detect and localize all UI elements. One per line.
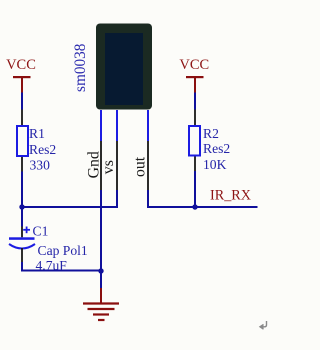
svg-text:vs: vs	[100, 160, 117, 174]
svg-text:Res2: Res2	[203, 141, 230, 156]
svg-text:330: 330	[30, 158, 51, 173]
svg-text:VCC: VCC	[6, 57, 36, 73]
svg-text:sm0038: sm0038	[72, 43, 89, 92]
svg-text:R1: R1	[29, 126, 45, 141]
svg-text:IR_RX: IR_RX	[210, 188, 251, 204]
svg-text:10K: 10K	[203, 157, 227, 172]
svg-text:C1: C1	[33, 224, 49, 239]
svg-text:Res2: Res2	[29, 142, 56, 157]
svg-text:Cap Pol1: Cap Pol1	[38, 243, 88, 258]
svg-text:R2: R2	[203, 126, 219, 141]
svg-text:VCC: VCC	[179, 57, 209, 73]
svg-text:out: out	[132, 156, 149, 177]
svg-text:4.7uF: 4.7uF	[36, 258, 68, 273]
